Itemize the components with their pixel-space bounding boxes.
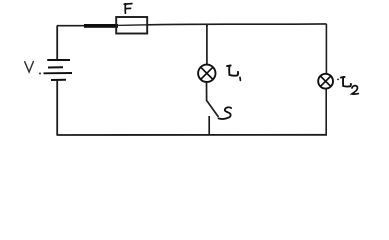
node: junction of middle branch with top wire [206, 24, 208, 27]
fuse F body [116, 17, 148, 34]
lamp L1 [198, 65, 215, 82]
label V [25, 62, 41, 75]
wire: middle branch upper (junction down to lamp L1) [206, 25, 208, 65]
label F [124, 4, 132, 14]
wire: right vertical lower (lamp L2 to bottom-right corner) [325, 89, 327, 135]
lamp L2 [318, 74, 333, 89]
wire: left vertical lower (battery down to bottom-left corner) [56, 80, 58, 135]
label L1 [227, 66, 240, 81]
switch S blade (open) [207, 101, 219, 117]
switch S lower contact [208, 116, 210, 135]
wire: right vertical upper (top-right corner down to lamp L2) [325, 24, 327, 74]
label S [219, 107, 232, 119]
wire: middle branch between lamp L1 and switch [206, 82, 208, 101]
wire: top horizontal from fuse to top-right corner [148, 23, 327, 26]
battery V plate 3 (long) [44, 72, 73, 74]
label L2 [337, 77, 358, 94]
wire: bottom horizontal [57, 134, 328, 136]
wire: top-left horizontal from battery corner to fuse lead [57, 25, 85, 27]
battery V plate 4 (short, bottom) [51, 79, 66, 81]
battery V plate 1 (top, long) [47, 59, 70, 61]
fuse F thick lead [84, 24, 118, 28]
battery V plate 2 (short) [48, 66, 63, 68]
wire: left vertical upper (top corner down to battery) [56, 26, 58, 60]
